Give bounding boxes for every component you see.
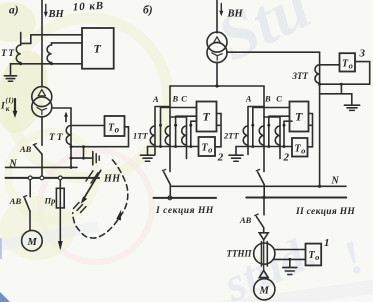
- svg-text:Т: Т: [94, 42, 102, 56]
- svg-text:С: С: [181, 94, 187, 104]
- fault current arrow: [14, 99, 16, 112]
- motor M (a): [22, 230, 43, 251]
- svg-text:о: о: [208, 145, 212, 155]
- svg-text:А: А: [245, 94, 252, 104]
- svg-text:о: о: [301, 146, 305, 156]
- svg-text:ВН: ВН: [227, 9, 244, 20]
- svg-text:1: 1: [324, 237, 330, 249]
- svg-text:Пр: Пр: [44, 196, 56, 206]
- bottom feeder with TTNP: [263, 200, 265, 215]
- CT 2TT phase C winding: [275, 126, 280, 145]
- feeder from transformer down: [41, 117, 43, 146]
- svg-text:АВ: АВ: [19, 144, 32, 154]
- node: [267, 145, 270, 148]
- svg-text:2ТТ: 2ТТ: [223, 131, 239, 141]
- relay box T (right branch): [290, 102, 309, 132]
- ground (LV CT, side-facing): [92, 152, 94, 165]
- node: [70, 166, 73, 169]
- busbar II section: [246, 197, 346, 199]
- node: [70, 157, 73, 160]
- node: [189, 145, 192, 148]
- secondary wire C: [284, 121, 292, 146]
- secondary wire A: [161, 108, 197, 147]
- svg-text:ТТ: ТТ: [49, 133, 65, 143]
- node: [251, 145, 254, 148]
- wire loop bottom: [71, 127, 129, 147]
- TTNP toroidal CT: [254, 243, 275, 264]
- fault point marks: [74, 203, 80, 209]
- svg-text:Т: Т: [203, 110, 211, 124]
- wire: HV bus 10kV: [41, 0, 43, 87]
- relay box To (1): [306, 244, 322, 266]
- svg-text:М: М: [27, 237, 38, 248]
- relay box To (left branch): [199, 137, 216, 156]
- node: [267, 124, 270, 127]
- relay box T (left branch): [197, 102, 217, 132]
- cable end triangle (top): [259, 233, 268, 240]
- T box right loop: [308, 114, 313, 147]
- svg-text:ВН: ВН: [48, 9, 65, 20]
- transformer T (b): [207, 32, 227, 52]
- CT 3TT in neutral: [319, 52, 321, 186]
- switch AV (I section): [162, 169, 165, 170]
- svg-text:б): б): [143, 5, 153, 17]
- motor feeder wire: [29, 180, 31, 197]
- svg-text:М: М: [259, 286, 270, 297]
- loop arrow: [116, 210, 121, 221]
- svg-text:АВ: АВ: [239, 215, 252, 225]
- phase A elbow: [248, 107, 264, 155]
- secondary wire B: [269, 116, 290, 146]
- svg-text:II секция НН: II секция НН: [295, 207, 355, 217]
- current transformer TT (LV) winding: [66, 126, 71, 145]
- HV feed wire: [216, 0, 218, 33]
- node (open) on bus: [28, 176, 32, 180]
- short-circuit arrow K: [83, 170, 101, 199]
- secondary return bus: [236, 146, 292, 148]
- fuse feeder wire: [59, 180, 61, 241]
- svg-text:3ТТ: 3ТТ: [292, 71, 309, 81]
- wire common return to box T: [11, 63, 83, 65]
- svg-text:о: о: [349, 61, 353, 71]
- wire: [21, 42, 31, 44]
- wire phase B main: [169, 86, 171, 172]
- secondary wire B: [176, 116, 197, 146]
- power-flow arrow VN: [45, 5, 47, 13]
- wire transformer to LV CT: [52, 108, 71, 167]
- node: [251, 124, 254, 127]
- wire ground tap: [83, 147, 85, 158]
- svg-text:N: N: [331, 176, 340, 187]
- wire ground tap: [320, 84, 352, 105]
- power-flow arrow VN: [220, 4, 222, 12]
- svg-text:2: 2: [283, 152, 290, 164]
- node: [340, 83, 343, 86]
- transformer T (a) two circles: [32, 87, 52, 107]
- node: [70, 145, 73, 148]
- node on bus II: [262, 196, 265, 199]
- node: [318, 185, 321, 188]
- node: [288, 258, 291, 261]
- svg-text:к: к: [6, 105, 10, 113]
- current transformer TT (HV) right winding: [51, 43, 53, 45]
- wire to box T second input: [52, 42, 83, 44]
- node split: [215, 84, 218, 87]
- CT 2TT phase B winding: [259, 126, 264, 145]
- wire phase B main: [263, 86, 265, 172]
- svg-text:I: I: [0, 102, 5, 112]
- wires TTNP to To: [275, 249, 306, 251]
- node: [174, 145, 177, 148]
- svg-text:1ТТ: 1ТТ: [133, 131, 148, 141]
- svg-text:В: В: [264, 94, 271, 104]
- wire to box T top input: [31, 34, 82, 36]
- ground (HV CT secondary): [10, 64, 12, 75]
- secondary return bus: [148, 146, 199, 148]
- svg-text:ТТ: ТТ: [1, 49, 16, 59]
- node: [283, 124, 286, 127]
- svg-text:10 кВ: 10 кВ: [73, 0, 105, 13]
- svg-text:о: о: [115, 125, 120, 135]
- svg-text:I секция НН: I секция НН: [155, 206, 214, 216]
- svg-text:(1): (1): [6, 97, 14, 105]
- feeder arrow: [58, 241, 63, 251]
- node: [189, 124, 192, 127]
- svg-text:С: С: [276, 94, 282, 104]
- node: [82, 157, 85, 160]
- ground (3TT): [344, 104, 359, 106]
- wire: [30, 35, 32, 44]
- relay box To (3): [340, 53, 356, 71]
- svg-text:ТТНП: ТТНП: [227, 249, 253, 259]
- node (open) on bus: [58, 176, 62, 180]
- current direction arrow: [65, 115, 67, 122]
- busbar NN: [6, 177, 100, 179]
- phase C elbow: [170, 117, 187, 159]
- wire 3TT top to To: [320, 64, 340, 66]
- node: [19, 62, 22, 65]
- secondary wire C: [191, 121, 197, 146]
- node: [159, 145, 162, 148]
- dashed fault-current loop: [73, 160, 128, 238]
- svg-text:2: 2: [217, 152, 224, 164]
- node on bus: [40, 176, 44, 180]
- phase C elbow: [264, 117, 280, 159]
- switch AV (feeder): [255, 214, 258, 215]
- relay box To (a): [105, 116, 125, 136]
- svg-text:АВ: АВ: [9, 196, 22, 206]
- node: [82, 145, 85, 148]
- svg-text:а): а): [9, 5, 19, 17]
- svg-text:Т: Т: [295, 110, 303, 124]
- CT 2TT phase A winding: [243, 126, 248, 145]
- busbar I section: [154, 197, 217, 199]
- ground (TTNP): [289, 259, 291, 267]
- fault slashes: [86, 171, 93, 181]
- wire N line: [6, 166, 78, 168]
- svg-text:НН: НН: [103, 174, 121, 185]
- node: [318, 83, 321, 86]
- switch AV (motor): [23, 196, 26, 197]
- fuse Pr: [56, 188, 64, 208]
- current transformer TT (HV) left winding: [20, 33, 22, 46]
- svg-text:В: В: [172, 94, 179, 104]
- CT 1TT phase C winding: [182, 126, 187, 145]
- secondary wire A: [253, 108, 290, 147]
- svg-text:3: 3: [359, 48, 366, 60]
- T box right loop: [215, 114, 221, 147]
- svg-text:о: о: [315, 252, 319, 262]
- relay box T (a): [82, 28, 114, 69]
- switch AV (a feeder): [33, 144, 36, 145]
- node: [174, 124, 177, 127]
- node: [50, 62, 53, 65]
- node: [159, 124, 162, 127]
- switch AV (II section): [256, 169, 259, 170]
- ground (left branch): [147, 147, 149, 155]
- wire neutral to 3TT: [227, 51, 320, 53]
- wire To loop: [320, 62, 370, 85]
- relay box To (right branch): [292, 138, 308, 157]
- CT 1TT phase A winding: [150, 126, 155, 145]
- wire to ground: [71, 157, 93, 159]
- cable end triangle (bottom): [259, 270, 268, 277]
- svg-text:А: А: [152, 94, 159, 104]
- wire CT top to To: [71, 125, 105, 127]
- motor M (b): [254, 279, 275, 300]
- ground (right branch): [235, 147, 237, 155]
- neutral line N: [170, 185, 346, 187]
- wire split header: [170, 85, 264, 87]
- wire transformer to split: [216, 62, 218, 86]
- node on bus I (open): [168, 196, 172, 200]
- node: [283, 145, 286, 148]
- CT 1TT phase B winding: [165, 126, 170, 145]
- phase A elbow: [155, 107, 170, 155]
